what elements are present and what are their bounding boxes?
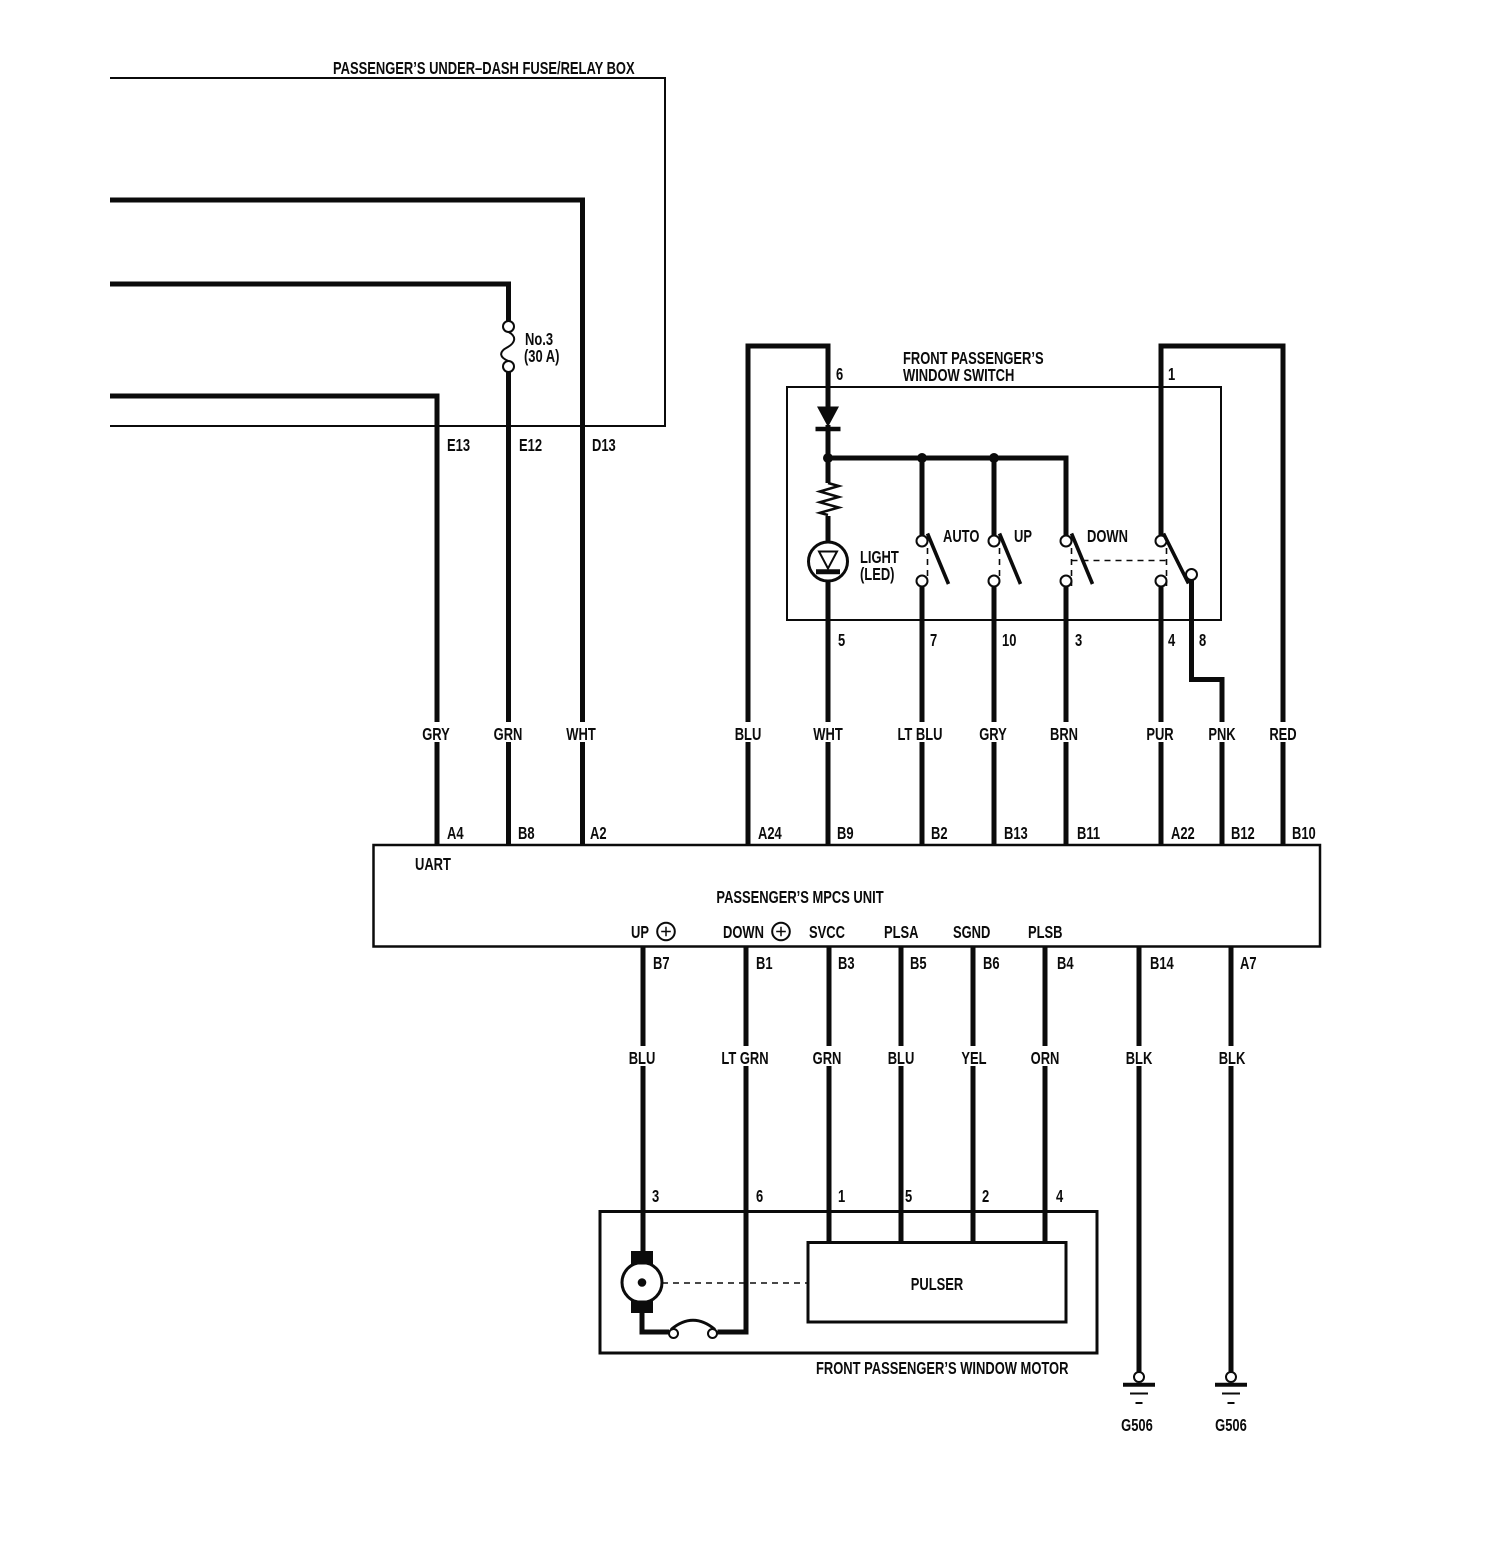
svg-text:4: 4 (1168, 631, 1176, 650)
svg-text:B10: B10 (1292, 824, 1316, 843)
svg-text:B11: B11 (1077, 824, 1100, 843)
svg-text:SGND: SGND (953, 923, 990, 942)
wire A7 to ground (1229, 946, 1234, 1372)
svg-text:DOWN: DOWN (723, 923, 764, 942)
svg-text:D13: D13 (592, 436, 616, 455)
svg-text:PASSENGER’S MPCS UNIT: PASSENGER’S MPCS UNIT (716, 888, 884, 907)
pulser box (808, 1243, 1066, 1323)
svg-text:UP: UP (1014, 527, 1032, 546)
svg-text:BLK: BLK (1126, 1049, 1153, 1068)
svg-text:SVCC: SVCC (809, 923, 845, 942)
svg-text:DOWN: DOWN (1087, 527, 1128, 546)
wire link to B1 (718, 1330, 749, 1335)
svg-text:BRN: BRN (1050, 725, 1078, 744)
svg-text:B2: B2 (931, 824, 948, 843)
svg-text:B9: B9 (837, 824, 854, 843)
window motor box (600, 1212, 1097, 1354)
fuse No.3 (30 A) (501, 321, 559, 372)
brush link arc (671, 1320, 715, 1329)
svg-text:B7: B7 (653, 954, 670, 973)
svg-text:PNK: PNK (1208, 725, 1235, 744)
wire E12 to MPCS (506, 372, 511, 845)
svg-text:WHT: WHT (566, 725, 596, 744)
wire B5 to pulser (899, 946, 904, 1243)
svg-text:BLU: BLU (735, 725, 762, 744)
switch UP (989, 458, 1032, 845)
svg-text:GRN: GRN (494, 725, 523, 744)
switch AUTO-DOWN (pins 4/8) (1156, 534, 1198, 587)
svg-text:5: 5 (838, 631, 846, 650)
wire diode to junction (826, 425, 831, 458)
wire junction to resistor (826, 458, 831, 483)
wire D13 feed (110, 200, 583, 845)
svg-text:E12: E12 (519, 436, 542, 455)
svg-text:E13: E13 (447, 436, 470, 455)
svg-text:B4: B4 (1057, 954, 1074, 973)
switch AUTO (917, 458, 980, 845)
svg-text:BLK: BLK (1219, 1049, 1246, 1068)
svg-text:ORN: ORN (1031, 1049, 1060, 1068)
svg-text:A7: A7 (1240, 954, 1257, 973)
svg-text:(30 A): (30 A) (524, 347, 559, 366)
dashed motor-pulser coupling (662, 1282, 808, 1284)
svg-text:UART: UART (415, 855, 451, 874)
resistor R (LED limiter) (820, 483, 839, 515)
svg-text:B6: B6 (983, 954, 1000, 973)
diode D (switch illumination) (816, 407, 841, 430)
svg-text:G506: G506 (1121, 1416, 1153, 1435)
motor pin labels (652, 1187, 1064, 1206)
svg-text:PASSENGER’S UNDER–DASH FUSE/RE: PASSENGER’S UNDER–DASH FUSE/RELAY BOX (333, 59, 635, 78)
svg-text:A2: A2 (590, 824, 607, 843)
svg-text:B8: B8 (518, 824, 535, 843)
svg-text:1: 1 (1168, 365, 1176, 384)
svg-text:4: 4 (1056, 1187, 1064, 1206)
ground G506 (A7) (1215, 1372, 1247, 1436)
wire pin 1 (1159, 344, 1164, 536)
wire resistor to LED (826, 516, 831, 543)
wire pin 8 jog (1192, 580, 1223, 846)
svg-text:PLSA: PLSA (884, 923, 919, 942)
svg-text:WHT: WHT (813, 725, 843, 744)
MPCS pin labels top (447, 824, 1316, 843)
svg-text:G506: G506 (1215, 1416, 1247, 1435)
wire B3 to pulser (827, 946, 832, 1243)
svg-text:B13: B13 (1004, 824, 1028, 843)
svg-text:3: 3 (652, 1187, 659, 1206)
svg-text:A22: A22 (1171, 824, 1195, 843)
dashed mechanical link DOWN to AUTO-DOWN switch (1072, 560, 1167, 562)
svg-text:B1: B1 (756, 954, 773, 973)
wire pin 4 (1159, 587, 1164, 845)
wire E13 feed (110, 396, 437, 845)
junction bus inside switch (828, 458, 1066, 536)
wire E12 feed (110, 284, 509, 321)
svg-text:FRONT PASSENGER’S WINDOW MOTOR: FRONT PASSENGER’S WINDOW MOTOR (816, 1359, 1068, 1378)
wire B7 to motor (641, 946, 646, 1252)
svg-text:LT GRN: LT GRN (721, 1049, 768, 1068)
MPCS internal port labels (631, 923, 1063, 943)
svg-text:PLSB: PLSB (1028, 923, 1063, 942)
switch DOWN (1061, 527, 1128, 845)
svg-text:PULSER: PULSER (911, 1275, 963, 1294)
svg-text:UP: UP (631, 923, 649, 942)
svg-text:(LED): (LED) (860, 565, 894, 584)
svg-text:AUTO: AUTO (943, 527, 979, 546)
wire BLU from switch pin 6 (748, 346, 828, 845)
svg-text:WINDOW SWITCH: WINDOW SWITCH (903, 366, 1014, 385)
window switch box (787, 387, 1221, 620)
MPCS unit box (374, 845, 1321, 947)
svg-text:RED: RED (1269, 725, 1296, 744)
LED lamp LIGHT (LED) (809, 542, 900, 585)
svg-text:A24: A24 (758, 824, 782, 843)
svg-text:B5: B5 (910, 954, 927, 973)
brush link terminals (669, 1329, 678, 1338)
motor M1 (622, 1251, 662, 1313)
svg-text:BLU: BLU (888, 1049, 915, 1068)
svg-text:2: 2 (982, 1187, 989, 1206)
svg-text:6: 6 (836, 365, 843, 384)
wire B14 to ground (1137, 946, 1142, 1372)
svg-text:GRY: GRY (979, 725, 1007, 744)
svg-text:6: 6 (756, 1187, 763, 1206)
svg-text:B3: B3 (838, 954, 855, 973)
wire B1 to motor link (744, 946, 749, 1335)
svg-text:8: 8 (1199, 631, 1207, 650)
svg-text:GRY: GRY (422, 725, 450, 744)
svg-text:1: 1 (838, 1187, 846, 1206)
wire B4 to pulser (1043, 946, 1048, 1243)
wire B6 to pulser (971, 946, 976, 1243)
svg-text:YEL: YEL (961, 1049, 986, 1068)
fuse/relay box outline (110, 78, 665, 426)
svg-text:B14: B14 (1150, 954, 1174, 973)
MPCS pin labels bottom (653, 954, 1257, 973)
svg-text:BLU: BLU (629, 1049, 656, 1068)
wire colour labels lower run (623, 1046, 1251, 1069)
svg-text:7: 7 (930, 631, 937, 650)
wire colour labels upper run (418, 722, 1302, 745)
wire RED feed (1161, 346, 1283, 845)
wire pin 5 (826, 580, 831, 845)
wire motor to link (640, 1313, 670, 1335)
ground G506 (B14) (1121, 1372, 1155, 1436)
svg-text:GRN: GRN (813, 1049, 842, 1068)
svg-text:LT BLU: LT BLU (897, 725, 942, 744)
svg-text:B12: B12 (1231, 824, 1255, 843)
svg-text:10: 10 (1002, 631, 1016, 650)
svg-text:5: 5 (905, 1187, 913, 1206)
wire pin 6 (826, 344, 831, 409)
svg-text:A4: A4 (447, 824, 464, 843)
svg-text:3: 3 (1075, 631, 1082, 650)
svg-text:PUR: PUR (1146, 725, 1173, 744)
node junction dots (823, 453, 833, 463)
